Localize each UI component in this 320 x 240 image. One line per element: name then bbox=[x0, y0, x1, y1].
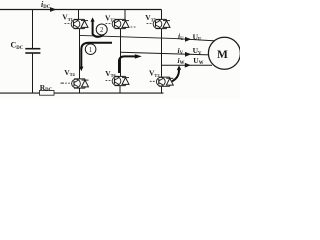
svg-text:2: 2 bbox=[100, 27, 104, 34]
svg-text:M: M bbox=[217, 49, 228, 61]
svg-text:1: 1 bbox=[89, 47, 92, 54]
